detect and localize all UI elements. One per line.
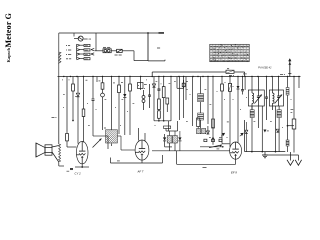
label 400 — [117, 160, 120, 162]
label A61 — [203, 166, 207, 168]
band switch contact 3 — [77, 53, 80, 55]
tube V2 AF7 — [135, 140, 149, 160]
svg-text:EF 9: EF 9 — [231, 171, 237, 175]
wire x262.3 down — [261, 106, 263, 152]
valve data table — [210, 44, 249, 61]
tube V2 top wires — [138, 128, 140, 141]
resistor striped R11 — [277, 110, 281, 118]
speaker cone — [36, 143, 45, 157]
coil unit frame — [147, 33, 149, 61]
resistor R4 by tube1 — [66, 131, 68, 133]
capacitor C4 — [118, 77, 120, 86]
small parts row y140 — [204, 139, 207, 141]
wire x299 stub — [298, 77, 300, 89]
wire x272 tank2 down — [271, 77, 273, 91]
resistor striped R14 — [286, 140, 289, 146]
bus bottom y155 — [262, 154, 299, 156]
diode D2 — [124, 77, 126, 95]
component box x294 — [293, 77, 295, 120]
wire x67 down — [66, 77, 68, 132]
svg-text:M: M — [210, 59, 212, 61]
label A10B — [52, 116, 55, 118]
stub x97 — [96, 77, 98, 83]
resistor R9 — [221, 77, 223, 85]
diode D3 — [153, 77, 155, 85]
wire x213 down — [212, 77, 214, 145]
tube V1 CY2 — [76, 141, 88, 164]
resistor R3 — [129, 77, 131, 85]
wire to filter — [95, 50, 104, 52]
wire x245 stub — [244, 77, 246, 91]
wire — [111, 50, 116, 52]
tank cap 2 variable — [278, 90, 280, 96]
antenna arrow up — [289, 59, 291, 77]
label I912 — [66, 49, 67, 51]
wire x59 down — [58, 77, 60, 145]
capacitor C3 — [113, 85, 115, 90]
resistor striped R13 — [287, 77, 289, 88]
small caps under tube1 — [70, 168, 73, 170]
tank coil 1 — [251, 90, 253, 93]
filter F1 box with circles — [103, 49, 111, 53]
wire x258.4 down — [257, 106, 259, 128]
diode D4 — [237, 77, 239, 87]
diode D5 — [245, 130, 248, 133]
resistor R2 — [102, 77, 104, 83]
band switch contact 1 — [77, 44, 80, 46]
earth arrow 1 — [289, 152, 291, 161]
wire x208 down — [207, 77, 209, 125]
band switch contact 2 — [77, 49, 80, 51]
label B DRO — [225, 81, 226, 83]
wire transformer bottom — [58, 163, 60, 166]
speaker magnet box — [45, 145, 52, 155]
wire bottom left y163 — [111, 162, 163, 164]
junction dots on bus — [63, 76, 64, 77]
wire bottom y164.3 right — [177, 163, 236, 165]
label DRE 170 — [115, 54, 118, 56]
wire x168.6 long — [168, 121, 170, 131]
grid arrow V3 right — [240, 133, 243, 136]
resistor R12 — [197, 118, 200, 127]
coil L1 on left wire — [59, 52, 61, 64]
IF transformer T1 wires — [107, 144, 109, 150]
choke DRE170 box — [117, 49, 123, 52]
tank box 2 — [269, 90, 283, 106]
switch wire vertical — [76, 44, 78, 59]
label 05 — [227, 121, 229, 123]
resistor R5 — [158, 99, 161, 110]
output transformer coil — [59, 144, 61, 163]
svg-text:AF 7: AF 7 — [137, 170, 144, 174]
misc tiny labels — [146, 79, 147, 81]
bus main horizontal y76.5 — [58, 76, 301, 78]
IF transformer T1 hatched — [111, 77, 113, 130]
hatched box HB1 — [167, 136, 172, 143]
coil frame tick — [164, 60, 166, 61]
potentiometer wire — [200, 146, 223, 148]
wire y151.6 dots — [245, 151, 286, 153]
series capacitor C8 — [266, 77, 268, 98]
wire jog x93 y137 — [93, 135, 108, 137]
wire y151.4 — [152, 150, 230, 152]
wire left vertical x59 — [58, 33, 60, 77]
title Kapsch Meteor G (vertical) — [4, 13, 13, 63]
hatched box HB2 — [173, 136, 178, 143]
label AVS — [157, 47, 160, 49]
IF transformer T2b striped — [198, 113, 204, 120]
bus second y72 — [152, 71, 226, 73]
wire x252 tank1 down — [251, 77, 253, 91]
label 010 101 — [103, 46, 106, 48]
tank cap 1 variable — [257, 90, 259, 96]
label a4B — [280, 74, 283, 76]
ground hatch小 — [262, 154, 268, 156]
label C4 7x — [291, 108, 294, 110]
component B DRO — [229, 77, 231, 84]
capacitor C2 — [83, 77, 85, 110]
socket MD41 circle — [78, 36, 83, 41]
diode D7 — [276, 129, 279, 132]
capacitor C9 — [149, 84, 151, 95]
resistor R1 — [72, 77, 74, 85]
component ZW on bus — [226, 70, 234, 73]
label 2998 — [66, 58, 68, 60]
svg-text:CY 2: CY 2 — [75, 172, 82, 176]
contact boxes — [84, 44, 90, 46]
capacitor C6 — [183, 77, 185, 84]
diode D1 — [77, 77, 79, 94]
resistor R15 on x213 — [212, 119, 215, 128]
wire x140.6 down — [140, 77, 142, 91]
resistor R8 — [166, 98, 169, 104]
resistor R7 — [163, 77, 165, 87]
tank coil 2 — [271, 90, 273, 93]
wire x275.5 down — [275, 106, 277, 152]
wire x171 down — [170, 77, 172, 122]
switch arm S1 — [93, 139, 102, 148]
junction y125.7 wire — [288, 125, 295, 127]
labels B7kA — [138, 83, 144, 89]
label K97 — [66, 45, 67, 47]
wire hatch box to tube2 — [118, 135, 122, 137]
wire drop to socket — [73, 33, 75, 37]
resistor striped R10 — [250, 110, 254, 118]
hatched box HB3 — [197, 129, 201, 134]
labels pot — [209, 136, 211, 138]
tube V3 EF9 — [230, 142, 242, 159]
earth arrow 2 — [297, 155, 299, 161]
wire junction y120.8 — [154, 120, 171, 122]
tube V1 wires — [77, 142, 79, 144]
IF transformer T2a striped — [200, 77, 202, 94]
wire x179 down — [176, 77, 178, 89]
wire x193 down — [191, 77, 193, 127]
label 4M — [99, 80, 101, 82]
label M913 — [66, 53, 67, 55]
wire x93 down — [92, 77, 94, 100]
svg-text:PVH EBD-42: PVH EBD-42 — [258, 66, 272, 69]
wire top horizontal y33 — [59, 32, 164, 34]
svg-text:Kapsch: Kapsch — [6, 47, 11, 62]
antenna lead end blob — [159, 32, 165, 34]
wire HB down — [169, 143, 171, 151]
label J4 — [186, 80, 188, 82]
grid arrow V3 left — [221, 133, 224, 136]
diode D9 — [206, 131, 209, 134]
labels row under bus left — [62, 79, 63, 81]
tank box 1 — [248, 90, 264, 106]
diode D8 — [163, 137, 166, 140]
socket circles mid — [142, 96, 145, 99]
label LW — [267, 130, 269, 132]
capacitor C5 — [158, 77, 160, 90]
svg-text:Meteor G: Meteor G — [4, 13, 13, 48]
potentiometer arm — [209, 145, 222, 148]
wire x188 down — [185, 77, 187, 101]
wire x177.6 long — [177, 121, 179, 131]
label J43 — [243, 73, 247, 75]
label J47B — [229, 74, 232, 76]
band switch contact 4 — [77, 57, 80, 59]
arrow contacts right — [91, 48, 94, 55]
svg-text:MD 41: MD 41 — [84, 38, 92, 41]
wire to coil unit — [122, 50, 134, 52]
diode D6 — [263, 130, 266, 133]
capacitor C7 — [242, 77, 244, 90]
resistor R6 — [158, 111, 161, 119]
